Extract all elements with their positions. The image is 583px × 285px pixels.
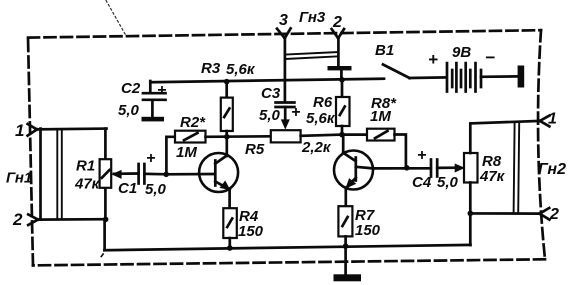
wire base node up to R2	[166, 137, 175, 175]
resistor R6 5,6k	[306, 80, 350, 135]
pin 1 of jack Gn1	[15, 121, 37, 140]
svg-text:5,6к: 5,6к	[306, 110, 336, 127]
svg-text:1: 1	[548, 111, 557, 128]
stray mark	[101, 253, 104, 257]
resistor R8* 1M	[342, 95, 406, 167]
dashed border bottom	[33, 259, 545, 265]
wire battery to terminal	[481, 75, 518, 78]
node collector R8*	[404, 165, 410, 171]
jack Gn1 contact lines	[56, 129, 58, 220]
jack Gn2 contact lines	[514, 123, 515, 214]
svg-text:5,0: 5,0	[437, 174, 459, 191]
potentiometer R1 47k	[74, 158, 111, 193]
terminal bar	[518, 66, 525, 88]
wire C3 to R5 wiper arrow	[284, 107, 287, 124]
chassis bar under C2	[142, 117, 165, 122]
svg-text:+: +	[291, 104, 300, 121]
svg-text:1М: 1М	[370, 108, 391, 125]
wire R8 top to jack2	[470, 121, 539, 153]
node rail R6	[339, 77, 345, 83]
svg-text:R1: R1	[76, 158, 95, 175]
potentiometer R8 47k	[464, 153, 506, 185]
wire switch to battery	[410, 76, 447, 79]
svg-text:−: −	[485, 48, 495, 67]
svg-text:1М: 1М	[176, 144, 197, 161]
jack Gn3 contact lines	[285, 52, 339, 55]
svg-text:Гн3: Гн3	[299, 9, 326, 26]
svg-text:5,6к: 5,6к	[226, 61, 256, 78]
capacitor C4 5,0	[412, 147, 459, 191]
svg-text:47к: 47к	[479, 168, 506, 185]
wire right drop to ground rail	[469, 213, 472, 245]
svg-text:R2*: R2*	[180, 114, 206, 131]
capacitor C2 5,0	[118, 80, 166, 119]
svg-text:В1: В1	[375, 42, 394, 59]
svg-text:R6: R6	[313, 94, 333, 111]
svg-text:C2: C2	[121, 80, 141, 97]
wire jack right rail lower	[104, 188, 107, 220]
top supply rail	[150, 79, 384, 83]
pin 1 of jack Gn2	[540, 111, 557, 128]
dashed border left	[28, 38, 33, 266]
scan scratch artifact	[106, 0, 127, 37]
svg-text:+: +	[428, 50, 438, 69]
svg-text:R3: R3	[201, 60, 221, 77]
svg-text:R5: R5	[245, 141, 265, 158]
wire jack right rail upper	[104, 129, 107, 160]
transistor Q2	[334, 135, 373, 207]
svg-text:2: 2	[332, 14, 342, 31]
node R3 collector	[224, 134, 230, 140]
svg-text:9В: 9В	[452, 44, 471, 61]
switch V1	[375, 42, 410, 78]
svg-text:2: 2	[549, 206, 559, 223]
svg-text:+: +	[157, 82, 166, 99]
potentiometer R5 2,2k	[245, 130, 332, 158]
contact bar of Gn3	[328, 66, 352, 70]
pin 2 of jack Gn2	[540, 206, 559, 223]
wire R5 right to node	[301, 135, 342, 136]
wire C1 to base node	[144, 172, 166, 175]
svg-text:C4: C4	[412, 174, 432, 191]
node R7 ground	[343, 243, 349, 249]
svg-text:1: 1	[15, 121, 24, 140]
wire R7 node to ground symbol	[344, 246, 347, 275]
jack Gn1 left side	[39, 129, 42, 220]
svg-text:5,0: 5,0	[259, 107, 281, 124]
wire R8 bottom to jack2	[470, 183, 539, 214]
resistor R4 150	[223, 208, 263, 248]
svg-text:+: +	[417, 147, 426, 164]
R1 wiper arrow from C1	[114, 172, 139, 175]
svg-text:3: 3	[279, 12, 288, 29]
resistor R2* 1M	[175, 114, 206, 161]
pin 3 of jack Gn3	[277, 12, 291, 38]
svg-text:C3: C3	[261, 85, 281, 102]
dashed border top	[28, 30, 541, 37]
wire pin3 down to C3	[284, 38, 287, 103]
svg-text:+: +	[146, 150, 155, 167]
ground rail bottom	[104, 245, 470, 250]
wire left drop to ground rail	[103, 219, 106, 250]
svg-text:150: 150	[238, 223, 264, 240]
resistor R3 5,6k	[201, 60, 256, 137]
ground	[334, 274, 362, 281]
wire pin2 to jack bottom	[37, 218, 107, 221]
wire pin2 down	[337, 38, 340, 67]
svg-text:C1: C1	[118, 180, 137, 197]
wire C4 to R8 wiper arrow	[437, 166, 457, 169]
battery B1 9V	[428, 44, 495, 92]
wire base node to Q1	[166, 173, 214, 176]
svg-text:Гн1: Гн1	[6, 170, 32, 187]
wire R2 right to R5 left	[206, 135, 271, 138]
node jack2 bottom	[468, 211, 474, 217]
svg-text:Гн2: Гн2	[538, 161, 566, 178]
wire pin1 to jack top	[36, 127, 107, 130]
resistor R7 150	[338, 206, 380, 246]
pin 2 of jack Gn1	[12, 210, 38, 229]
node base Q1	[163, 172, 169, 178]
node R4 ground	[227, 245, 233, 251]
svg-text:2: 2	[12, 210, 23, 229]
svg-text:150: 150	[355, 222, 381, 239]
node base Q2	[339, 132, 345, 138]
svg-text:5,0: 5,0	[145, 181, 167, 198]
wire Q2 collector to C4	[373, 167, 431, 170]
svg-text:47к: 47к	[74, 176, 101, 193]
capacitor C3 5,0	[259, 85, 300, 124]
pin 2 of jack Gn3	[332, 14, 344, 38]
node rail R3	[224, 79, 230, 85]
capacitor C1 5,0	[118, 150, 167, 198]
node jack1 bottom	[103, 217, 109, 223]
svg-text:2,2к: 2,2к	[301, 139, 332, 156]
dashed border right	[538, 30, 545, 259]
svg-text:5,0: 5,0	[118, 102, 140, 119]
transistor Q1	[199, 137, 238, 209]
wire bar to rail	[340, 70, 343, 80]
